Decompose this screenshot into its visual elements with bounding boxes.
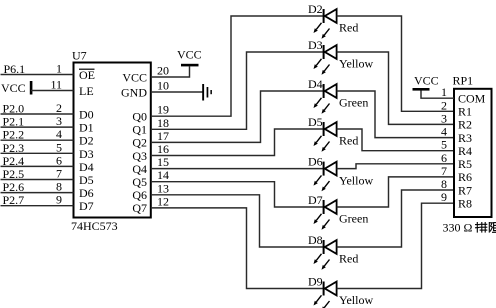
LED D6 (yellow) [314,162,337,192]
svg-text:9: 9 [441,190,447,204]
svg-text:6: 6 [56,153,62,167]
svg-text:R3: R3 [458,131,472,145]
LED D2 (red) [314,9,337,39]
svg-text:R5: R5 [458,157,472,171]
svg-text:7: 7 [56,167,62,181]
wire U7 Q5 (pin 14) to LED D7 cathode [151,182,323,207]
resistor network RP1 body [454,89,492,217]
svg-text:Q6: Q6 [132,188,147,202]
svg-text:Q4: Q4 [132,162,147,176]
svg-text:Yellow: Yellow [339,293,373,307]
svg-text:1: 1 [56,62,62,76]
svg-text:10: 10 [157,79,169,93]
svg-text:R8: R8 [458,197,472,211]
svg-text:D5: D5 [308,115,323,129]
svg-text:11: 11 [50,78,62,92]
svg-text:330 Ω: 330 Ω [443,221,473,235]
svg-text:17: 17 [157,129,169,143]
wire net P2.2 to U7 pin 4 [1,139,74,141]
wire U7 Q2 (pin 17) to LED D4 cathode [151,91,323,142]
svg-text:18: 18 [157,116,169,130]
svg-text:Q5: Q5 [132,175,147,189]
svg-text:D2: D2 [308,2,323,16]
wire net P2.6 to U7 pin 8 [1,192,74,194]
svg-text:1: 1 [441,85,447,99]
svg-text:9: 9 [56,193,62,207]
svg-text:Green: Green [339,212,368,226]
wire LED D7 anode to RP1 pin 7 (R6) [337,177,454,207]
svg-text:14: 14 [157,168,169,182]
svg-text:Red: Red [339,252,358,266]
wire VCC to RP1 pin 1 (COM) [421,91,454,99]
svg-text:D4: D4 [79,160,94,174]
wire U7 Q6 (pin 13) to LED D8 cathode [151,195,323,247]
wire LED D9 anode to RP1 pin 9 (R8) [337,203,454,288]
svg-text:74HC573: 74HC573 [71,219,118,233]
U7 pin name OE (with overline) [79,68,95,82]
VCC power symbol at U7 pin 11 (LE) [1,81,32,95]
wire U7 Q3 (pin 16) to LED D5 cathode [151,129,323,156]
svg-text:D8: D8 [308,233,323,247]
svg-text:6: 6 [441,151,447,165]
svg-text:3: 3 [56,114,62,128]
svg-text:VCC: VCC [122,70,147,84]
svg-text:15: 15 [157,155,169,169]
wire VCC tap to U7 pin 11 [31,90,74,92]
svg-text:D3: D3 [79,147,94,161]
svg-text:D7: D7 [79,199,94,213]
LED D3 (yellow) [314,45,337,75]
svg-text:GND: GND [121,85,147,99]
svg-text:VCC: VCC [1,81,26,95]
wire U7 Q7 (pin 12) to LED D9 cathode [151,208,323,289]
svg-text:Q0: Q0 [132,110,147,124]
svg-text:R7: R7 [458,183,472,197]
svg-text:4: 4 [441,125,447,139]
svg-text:D3: D3 [308,38,323,52]
svg-text:VCC: VCC [177,48,202,62]
wire net P2.4 to U7 pin 6 [1,165,74,167]
svg-text:Yellow: Yellow [339,173,373,187]
svg-text:R6: R6 [458,170,472,184]
svg-text:R1: R1 [458,105,472,119]
svg-text:COM: COM [458,92,486,106]
LED D7 (green) [314,200,337,230]
wire LED D5 anode to RP1 pin 5 (R4) [337,129,454,151]
svg-text:R4: R4 [458,144,472,158]
wire net P2.3 to U7 pin 5 [1,152,74,154]
RP1 value label 330 ohm resistor-network (330 Ω排阻) [443,221,496,235]
svg-text:2: 2 [56,101,62,115]
svg-text:D4: D4 [308,77,323,91]
svg-text:Q3: Q3 [132,149,147,163]
svg-text:D5: D5 [79,173,94,187]
svg-text:Q2: Q2 [132,136,147,150]
svg-text:3: 3 [441,111,447,125]
svg-text:Yellow: Yellow [339,57,373,71]
svg-text:20: 20 [157,64,169,78]
svg-text:19: 19 [157,103,169,117]
svg-text:5: 5 [56,140,62,154]
svg-text:D6: D6 [308,155,323,169]
LED D8 (red) [314,240,337,270]
svg-text:12: 12 [157,194,169,208]
svg-text:D0: D0 [79,108,94,122]
wire U7 pin 10 to ground [151,91,203,93]
wire U7 Q0 (pin 19) to LED D2 cathode [151,16,323,116]
wire LED D4 anode to RP1 pin 4 (R3) [337,91,454,138]
svg-text:2: 2 [441,98,447,112]
ground symbol at U7 pin 10 [202,84,212,101]
wire net P6.1 to U7 pin 1 [1,74,74,76]
wire U7 Q1 (pin 18) to LED D3 cathode [151,52,323,129]
wire LED D2 anode to RP1 pin 2 (R1) [337,16,454,111]
svg-text:8: 8 [441,177,447,191]
svg-text:Q1: Q1 [132,123,147,137]
svg-text:Green: Green [339,96,368,110]
VCC power symbol at U7 pin 20 [177,48,202,67]
svg-text:U7: U7 [72,49,87,63]
wire LED D3 anode to RP1 pin 3 (R2) [337,52,454,124]
VCC power symbol at RP1 COM [413,74,439,91]
svg-text:D1: D1 [79,121,94,135]
svg-text:LE: LE [79,84,94,98]
wire net P2.0 to U7 pin 2 [1,113,74,115]
wire net P2.5 to U7 pin 7 [1,179,74,181]
svg-text:VCC: VCC [414,74,439,88]
svg-text:Red: Red [339,21,358,35]
wire LED D6 anode to RP1 pin 6 (R5) [337,164,454,169]
svg-text:5: 5 [441,138,447,152]
wire net P2.7 to U7 pin 9 [1,205,74,207]
LED D4 (green) [314,84,337,114]
svg-text:D6: D6 [79,186,94,200]
LED D9 (yellow) [314,282,337,308]
svg-text:R2: R2 [458,118,472,132]
svg-text:7: 7 [441,164,447,178]
svg-text:Q7: Q7 [132,201,147,215]
svg-text:8: 8 [56,180,62,194]
svg-text:D2: D2 [79,134,94,148]
wire U7 pin 20 to VCC symbol [151,66,190,77]
wire net P2.1 to U7 pin 3 [1,126,74,128]
svg-text:16: 16 [157,142,169,156]
svg-text:OE: OE [79,68,95,82]
LED D5 (red) [314,122,337,152]
svg-text:D7: D7 [308,193,323,207]
svg-text:RP1: RP1 [453,74,474,88]
IC U7 74HC573 body [74,63,151,218]
wire LED D8 anode to RP1 pin 8 (R7) [337,190,454,247]
svg-text:13: 13 [157,181,169,195]
svg-text:4: 4 [56,127,62,141]
svg-text:D9: D9 [308,275,323,289]
wire U7 Q4 (pin 15) to LED D6 cathode [151,168,323,170]
svg-text:Red: Red [339,134,358,148]
